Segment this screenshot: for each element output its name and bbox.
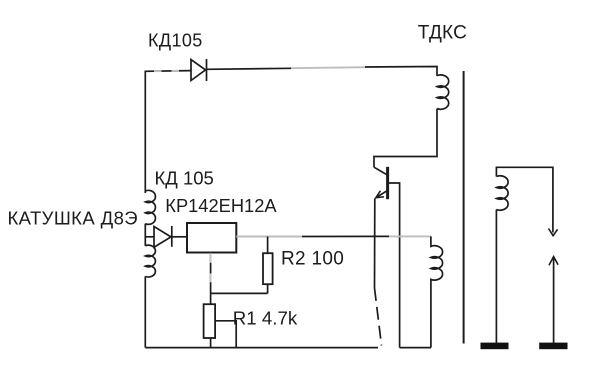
wire L1 bottom to rail (144, 276, 146, 347)
wire U1 output gray (236, 236, 302, 238)
wire R1 wiper tap (215, 321, 236, 348)
svg-text:КД105: КД105 (148, 31, 203, 51)
wire top-right corner (365, 67, 437, 77)
svg-text:КАТУШКА Д8Э: КАТУШКА Д8Э (8, 208, 138, 229)
wire U1 adj dashed down (210, 253, 212, 294)
base bar (386, 167, 389, 199)
wire emitter down (374, 199, 376, 289)
transformer T1 secondary winding (496, 176, 508, 210)
svg-text:ТДКС: ТДКС (418, 23, 467, 44)
diode VD2 КД 105 (145, 226, 187, 247)
wire gray gaps in top-left dash (154, 70, 179, 72)
wire gray top segment (291, 67, 365, 68)
wire secondary top (496, 167, 553, 232)
diode VD1 КД105 (191, 59, 207, 81)
transistor Q1 (374, 167, 388, 199)
resistor R1 4.7k (204, 293, 237, 347)
wire primary bottom to collector (374, 109, 437, 168)
svg-text:R2 100: R2 100 (281, 248, 344, 269)
wire L1 tap stubs (144, 224, 146, 246)
wire top-left corner dashed (145, 71, 190, 193)
wire base tap down (389, 183, 400, 348)
wire feedback loop bottom (400, 347, 431, 349)
inductor L1 КАТУШКА Д8Э upper half (145, 190, 155, 224)
collector diagonal (374, 167, 387, 175)
svg-text:КД 105: КД 105 (155, 168, 214, 189)
ground right (539, 343, 567, 350)
wire spark gap lower (553, 257, 555, 343)
spark gap down arrow (549, 229, 558, 236)
inductor L1 lower half (145, 245, 155, 277)
spark gap up arrow (549, 257, 558, 266)
wire secondary bottom (495, 210, 497, 344)
wire mid gray segment to feedback coil (389, 235, 431, 237)
ground left (481, 343, 509, 350)
transformer T1 core (463, 71, 465, 344)
regulator U1 КР142ЕН12А (187, 223, 236, 253)
wire diode to top-right (207, 68, 292, 69)
svg-text:КР142ЕН12А: КР142ЕН12А (165, 195, 277, 216)
wire bottom rail (145, 347, 378, 349)
emitter arrowhead (376, 191, 384, 198)
wire emitter dashed slant to rail (375, 288, 382, 346)
emitter diagonal (376, 191, 387, 198)
transformer T1 ТДКС primary winding (437, 75, 449, 109)
wire mid black segment (302, 235, 389, 237)
resistor R2 100 (263, 237, 273, 294)
svg-text:R1 4.7k: R1 4.7k (233, 307, 298, 328)
transformer T1 feedback winding (431, 236, 443, 347)
wire junction R1/R2 (211, 292, 268, 294)
